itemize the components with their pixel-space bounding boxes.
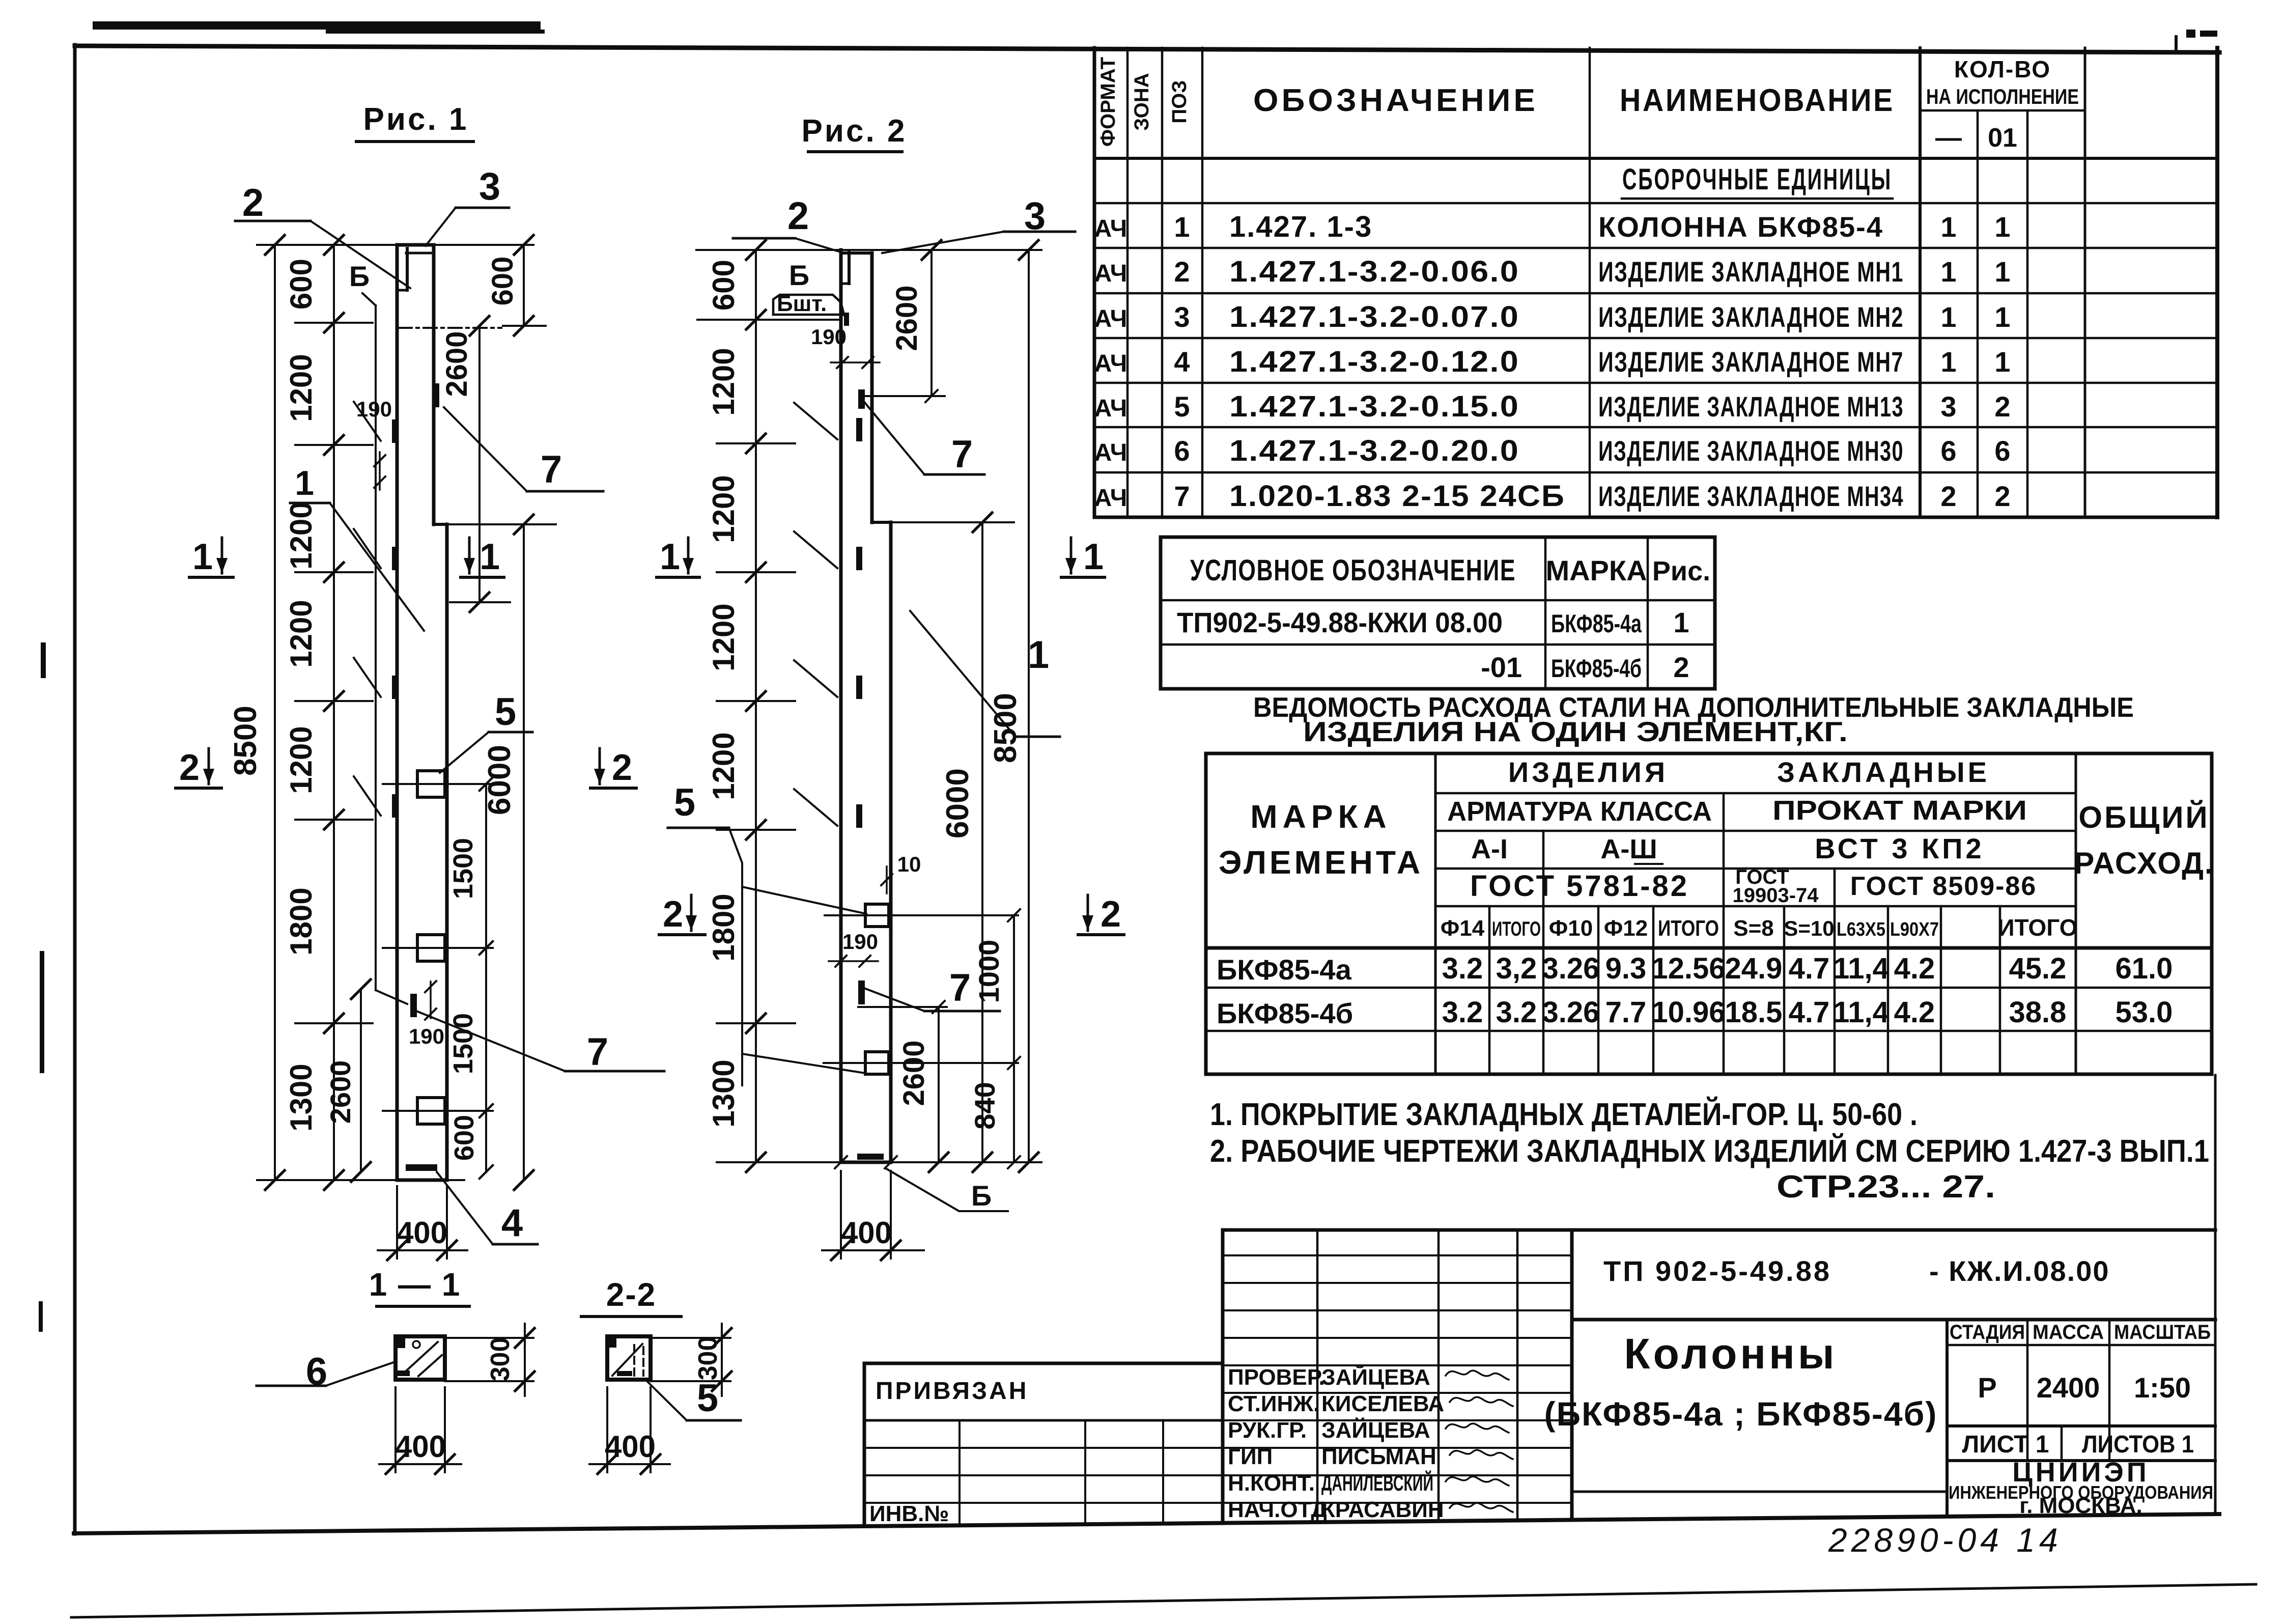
svg-text:1: 1 [660, 537, 680, 577]
svg-text:L90X7: L90X7 [1890, 919, 1939, 940]
svg-text:Ф12: Ф12 [1604, 916, 1648, 941]
svg-text:ЗАЙЦЕВА: ЗАЙЦЕВА [1321, 1417, 1430, 1443]
svg-text:8500: 8500 [228, 706, 263, 776]
svg-text:1200: 1200 [284, 501, 318, 569]
svg-text:Б: Б [789, 259, 809, 291]
svg-text:1.427.1-3.2-0.06.0: 1.427.1-3.2-0.06.0 [1229, 255, 1519, 288]
svg-text:АРМАТУРА КЛАССА: АРМАТУРА КЛАССА [1447, 796, 1712, 827]
svg-text:Н.КОНТ.: Н.КОНТ. [1228, 1471, 1315, 1496]
svg-text:НАИМЕНОВАНИЕ: НАИМЕНОВАНИЕ [1620, 83, 1895, 118]
svg-text:1: 1 [480, 537, 500, 577]
svg-text:300: 300 [486, 1337, 515, 1382]
svg-text:ИЗДЕЛИЕ ЗАКЛАДНОЕ МН30: ИЗДЕЛИЕ ЗАКЛАДНОЕ МН30 [1598, 435, 1904, 467]
svg-text:Колонны: Колонны [1624, 1330, 1837, 1378]
svg-text:3: 3 [479, 165, 500, 208]
svg-text:7: 7 [541, 448, 562, 491]
svg-text:ЗОНА: ЗОНА [1131, 73, 1153, 130]
svg-text:1: 1 [1994, 301, 2010, 333]
svg-text:1 — 1: 1 — 1 [369, 1266, 461, 1303]
svg-text:г. МОСКВА.: г. МОСКВА. [2019, 1493, 2142, 1518]
svg-text:4.2: 4.2 [1894, 996, 1935, 1029]
svg-text:4: 4 [1174, 346, 1190, 378]
svg-text:6000: 6000 [940, 768, 975, 838]
svg-text:2-2: 2-2 [606, 1276, 657, 1313]
svg-text:190: 190 [842, 930, 878, 954]
svg-text:НА ИСПОЛНЕНИЕ: НА ИСПОЛНЕНИЕ [1926, 85, 2079, 108]
svg-text:400: 400 [605, 1430, 656, 1464]
svg-text:2: 2 [1994, 390, 2010, 423]
svg-text:1: 1 [1940, 346, 1956, 378]
svg-text:ГОСТ 8509-86: ГОСТ 8509-86 [1850, 872, 2037, 901]
svg-text:2: 2 [1101, 894, 1121, 935]
svg-text:1: 1 [295, 464, 314, 502]
svg-text:ГИП: ГИП [1228, 1444, 1273, 1469]
svg-text:45.2: 45.2 [2009, 952, 2067, 985]
svg-text:БКФ85-4б: БКФ85-4б [1551, 654, 1642, 683]
svg-text:22890-04 14: 22890-04 14 [1828, 1521, 2062, 1559]
svg-text:АЧ: АЧ [1094, 260, 1127, 287]
svg-text:ИЗДЕЛИЯ НА ОДИН ЭЛЕМЕНТ,: ИЗДЕЛИЯ НА ОДИН ЭЛЕМЕНТ,КГ. [1303, 716, 1848, 747]
svg-text:11,4: 11,4 [1833, 952, 1889, 985]
svg-text:6: 6 [1994, 435, 2010, 467]
svg-text:400: 400 [841, 1216, 892, 1250]
svg-text:4.2: 4.2 [1894, 952, 1935, 985]
svg-text:КОЛ-ВО: КОЛ-ВО [1954, 56, 2051, 82]
svg-text:СТАДИЯ: СТАДИЯ [1950, 1321, 2025, 1343]
svg-text:7.7: 7.7 [1605, 996, 1647, 1029]
svg-text:1.427.1-3.2-0.20.0: 1.427.1-3.2-0.20.0 [1229, 434, 1519, 467]
svg-text:400: 400 [397, 1216, 447, 1250]
svg-text:ИНВ.№: ИНВ.№ [869, 1501, 949, 1526]
svg-text:КОЛОННА БКФ85-4: КОЛОННА БКФ85-4 [1598, 211, 1883, 243]
svg-text:9.3: 9.3 [1605, 952, 1647, 985]
svg-text:4: 4 [501, 1201, 523, 1245]
svg-text:3.26: 3.26 [1542, 996, 1600, 1029]
svg-text:КИСЕЛЕВА: КИСЕЛЕВА [1321, 1391, 1444, 1416]
svg-text:53.0: 53.0 [2116, 996, 2173, 1029]
svg-text:1: 1 [1940, 301, 1956, 333]
svg-text:ЗАЙЦЕВА: ЗАЙЦЕВА [1321, 1364, 1430, 1390]
svg-text:1500: 1500 [448, 1013, 478, 1074]
svg-text:600: 600 [707, 260, 741, 311]
svg-text:01: 01 [1988, 123, 2017, 153]
svg-text:3,2: 3,2 [1496, 952, 1537, 985]
svg-text:1: 1 [1673, 606, 1689, 638]
svg-text:11,4: 11,4 [1833, 996, 1889, 1029]
svg-text:ОБОЗНАЧЕНИЕ: ОБОЗНАЧЕНИЕ [1253, 83, 1538, 118]
svg-text:1200: 1200 [284, 600, 318, 667]
svg-text:ИТОГО: ИТОГО [1492, 918, 1541, 940]
svg-text:840: 840 [969, 1082, 1001, 1129]
svg-text:2: 2 [1940, 480, 1956, 512]
svg-text:1200: 1200 [707, 475, 741, 543]
svg-text:А-Ι: А-Ι [1471, 834, 1508, 864]
svg-text:(БКФ85-4а ; БКФ85-4б): (БКФ85-4а ; БКФ85-4б) [1544, 1395, 1938, 1433]
svg-text:1: 1 [1028, 633, 1049, 677]
svg-text:6000: 6000 [482, 745, 517, 815]
svg-text:ПРИВЯЗАН: ПРИВЯЗАН [876, 1378, 1028, 1405]
svg-text:ГОСТ 5781-82: ГОСТ 5781-82 [1470, 870, 1689, 903]
svg-text:АЧ: АЧ [1094, 395, 1127, 422]
svg-text:1000: 1000 [973, 940, 1005, 1003]
svg-text:600: 600 [284, 259, 318, 310]
svg-text:5: 5 [674, 781, 695, 824]
svg-text:ВСТ 3 КП2: ВСТ 3 КП2 [1815, 832, 1984, 864]
svg-text:БКФ85-4б: БКФ85-4б [1217, 997, 1353, 1029]
svg-text:ИЗДЕЛИЕ ЗАКЛАДНОЕ МН13: ИЗДЕЛИЕ ЗАКЛАДНОЕ МН13 [1598, 390, 1904, 423]
svg-text:1200: 1200 [284, 726, 318, 794]
svg-text:38.8: 38.8 [2009, 996, 2067, 1029]
svg-text:2: 2 [663, 894, 683, 935]
svg-text:61.0: 61.0 [2116, 952, 2173, 985]
svg-text:А-Ш: А-Ш [1600, 834, 1657, 864]
svg-text:ЭЛЕМЕНТА: ЭЛЕМЕНТА [1219, 844, 1423, 881]
svg-text:2. РАБОЧИЕ ЧЕРТЕЖИ ЗАКЛАДНЫХ: 2. РАБОЧИЕ ЧЕРТЕЖИ ЗАКЛАДНЫХ ИЗДЕЛИЙ СМ … [1210, 1133, 2209, 1169]
svg-text:4.7: 4.7 [1789, 952, 1830, 985]
svg-text:1500: 1500 [448, 838, 478, 899]
svg-text:1:50: 1:50 [2134, 1371, 2191, 1404]
svg-text:4.7: 4.7 [1789, 996, 1830, 1029]
svg-text:СТР.23... 27.: СТР.23... 27. [1777, 1169, 1995, 1205]
svg-text:СБОРОЧНЫЕ ЕДИНИЦЫ: СБОРОЧНЫЕ ЕДИНИЦЫ [1622, 163, 1892, 196]
svg-text:3.2: 3.2 [1496, 996, 1537, 1029]
svg-text:ИЗДЕЛИЕ ЗАКЛАДНОЕ МН2: ИЗДЕЛИЕ ЗАКЛАДНОЕ МН2 [1598, 301, 1904, 333]
svg-text:АЧ: АЧ [1094, 485, 1127, 512]
svg-text:НАЧ.ОТД: НАЧ.ОТД [1228, 1497, 1327, 1522]
svg-text:600: 600 [486, 257, 519, 306]
svg-text:2: 2 [1174, 256, 1190, 288]
svg-text:ПОЗ: ПОЗ [1168, 80, 1191, 124]
svg-text:Рис.: Рис. [1652, 556, 1710, 586]
svg-text:2600: 2600 [440, 331, 473, 397]
svg-text:2600: 2600 [897, 1040, 930, 1106]
svg-text:ТП 902-5-49.88: ТП 902-5-49.88 [1603, 1255, 1831, 1287]
svg-text:РУК.ГР.: РУК.ГР. [1228, 1418, 1307, 1443]
svg-text:ПРОКАТ МАРКИ: ПРОКАТ МАРКИ [1772, 795, 2027, 826]
svg-text:8500: 8500 [988, 693, 1023, 763]
svg-text:Б: Б [349, 260, 370, 292]
svg-text:- КЖ.И.08.00: - КЖ.И.08.00 [1929, 1255, 2110, 1287]
svg-text:ЗАКЛАДНЫЕ: ЗАКЛАДНЫЕ [1777, 756, 1990, 788]
svg-text:18.5: 18.5 [1725, 996, 1783, 1029]
svg-text:Ф10: Ф10 [1549, 916, 1593, 941]
svg-text:1.427.1-3.2-0.07.0: 1.427.1-3.2-0.07.0 [1229, 300, 1519, 333]
svg-text:2600: 2600 [324, 1060, 356, 1124]
svg-text:МАСШТАБ: МАСШТАБ [2114, 1321, 2211, 1343]
svg-text:5: 5 [1174, 390, 1190, 423]
svg-text:МАРКА: МАРКА [1545, 554, 1647, 586]
svg-text:1: 1 [1994, 346, 2010, 378]
svg-text:24.9: 24.9 [1725, 952, 1783, 985]
svg-text:ПРОВЕР.: ПРОВЕР. [1228, 1365, 1325, 1390]
svg-text:1: 1 [1174, 211, 1190, 243]
svg-text:ПИСЬМАН: ПИСЬМАН [1321, 1444, 1436, 1469]
svg-text:Ф14: Ф14 [1441, 916, 1485, 941]
svg-text:ЛИСТ 1: ЛИСТ 1 [1962, 1431, 2049, 1458]
svg-text:7: 7 [1174, 480, 1190, 512]
svg-text:S=8: S=8 [1733, 916, 1774, 941]
svg-text:1200: 1200 [707, 603, 741, 671]
svg-text:10: 10 [897, 852, 921, 876]
svg-text:S=10: S=10 [1784, 916, 1834, 940]
svg-text:5: 5 [495, 690, 516, 734]
svg-text:400: 400 [395, 1430, 446, 1464]
svg-text:Рис. 1: Рис. 1 [363, 102, 469, 137]
svg-text:6: 6 [1940, 435, 1956, 467]
svg-text:1: 1 [1940, 256, 1956, 288]
svg-text:1.427.1-3.2-0.15.0: 1.427.1-3.2-0.15.0 [1229, 390, 1519, 423]
svg-text:ИЗДЕЛИЕ ЗАКЛАДНОЕ МН7: ИЗДЕЛИЕ ЗАКЛАДНОЕ МН7 [1598, 346, 1904, 378]
svg-text:190: 190 [409, 1024, 444, 1048]
svg-text:Р: Р [1978, 1371, 1996, 1404]
svg-text:1.427.1-3.2-0.12.0: 1.427.1-3.2-0.12.0 [1229, 345, 1519, 378]
svg-text:БКФ85-4а: БКФ85-4а [1551, 609, 1642, 638]
svg-text:1: 1 [1083, 537, 1104, 577]
svg-text:1200: 1200 [707, 732, 741, 800]
svg-text:ИЗДЕЛИЕ ЗАКЛАДНОЕ МН1: ИЗДЕЛИЕ ЗАКЛАДНОЕ МН1 [1598, 256, 1904, 288]
svg-text:КРАСАВИН: КРАСАВИН [1321, 1497, 1444, 1522]
svg-text:АЧ: АЧ [1094, 350, 1127, 377]
svg-text:10.96: 10.96 [1651, 996, 1725, 1029]
svg-text:2: 2 [787, 194, 809, 238]
svg-text:3.2: 3.2 [1442, 996, 1483, 1029]
svg-text:7: 7 [951, 433, 973, 476]
svg-text:190: 190 [811, 325, 847, 349]
svg-text:1200: 1200 [707, 348, 741, 415]
svg-text:ИЗДЕЛИЯ: ИЗДЕЛИЯ [1508, 756, 1668, 788]
svg-text:1: 1 [1994, 256, 2010, 288]
svg-text:190: 190 [356, 397, 392, 421]
svg-text:-01: -01 [1481, 651, 1522, 683]
svg-text:ФОРМАТ: ФОРМАТ [1097, 57, 1119, 147]
svg-text:3.26: 3.26 [1542, 952, 1600, 985]
svg-text:2: 2 [1994, 480, 2010, 512]
svg-text:1. ПОКРЫТИЕ ЗАКЛАДНЫХ ДЕТАЛЕ: 1. ПОКРЫТИЕ ЗАКЛАДНЫХ ДЕТАЛЕЙ-ГОР. Ц. 50… [1210, 1097, 1918, 1132]
svg-text:1: 1 [1940, 211, 1956, 243]
svg-text:3.2: 3.2 [1442, 952, 1483, 985]
svg-text:ИТОГО: ИТОГО [1997, 914, 2077, 941]
svg-text:2: 2 [612, 747, 632, 788]
svg-text:1200: 1200 [284, 354, 318, 422]
svg-text:1: 1 [1994, 211, 2010, 243]
svg-text:1300: 1300 [284, 1063, 318, 1131]
svg-text:2: 2 [1673, 651, 1689, 683]
svg-text:СТ.ИНЖ.: СТ.ИНЖ. [1228, 1391, 1319, 1416]
svg-text:ЛИСТОВ 1: ЛИСТОВ 1 [2082, 1431, 2194, 1458]
svg-text:600: 600 [449, 1115, 480, 1161]
svg-text:1.020-1.83 2-15 24СБ: 1.020-1.83 2-15 24СБ [1229, 480, 1565, 513]
svg-text:6: 6 [1174, 435, 1190, 467]
svg-text:3: 3 [1174, 301, 1190, 333]
svg-text:2600: 2600 [890, 285, 923, 351]
svg-text:УСЛОВНОЕ ОБОЗНАЧЕНИЕ: УСЛОВНОЕ ОБОЗНАЧЕНИЕ [1190, 554, 1516, 587]
svg-text:2400: 2400 [2037, 1371, 2100, 1404]
svg-text:РАСХОД.: РАСХОД. [2074, 846, 2214, 880]
svg-text:19903-74: 19903-74 [1732, 884, 1819, 907]
svg-text:АЧ: АЧ [1094, 305, 1127, 332]
svg-text:300: 300 [693, 1336, 723, 1381]
svg-text:МАССА: МАССА [2033, 1321, 2104, 1343]
svg-text:Рис. 2: Рис. 2 [802, 114, 907, 149]
svg-text:12.56: 12.56 [1651, 952, 1725, 985]
svg-text:7: 7 [949, 966, 971, 1010]
svg-text:7: 7 [587, 1030, 608, 1074]
svg-text:1300: 1300 [707, 1059, 741, 1127]
svg-text:2: 2 [179, 747, 200, 788]
svg-text:Б: Б [971, 1180, 992, 1212]
svg-text:3: 3 [1940, 390, 1956, 423]
svg-text:1: 1 [192, 537, 213, 577]
svg-text:1800: 1800 [707, 893, 741, 961]
svg-text:МАРКА: МАРКА [1250, 798, 1392, 835]
svg-text:ТП902-5-49.88-КЖИ 08.00: ТП902-5-49.88-КЖИ 08.00 [1177, 606, 1503, 638]
svg-text:5: 5 [697, 1377, 718, 1420]
svg-text:АЧ: АЧ [1094, 215, 1127, 242]
svg-text:ДАНИЛЕВСКИЙ: ДАНИЛЕВСКИЙ [1321, 1470, 1433, 1496]
svg-text:1800: 1800 [284, 887, 318, 955]
svg-text:—: — [1935, 123, 1962, 153]
svg-text:ИТОГО: ИТОГО [1658, 916, 1719, 941]
svg-text:АЧ: АЧ [1094, 439, 1127, 466]
svg-text:ИЗДЕЛИЕ ЗАКЛАДНОЕ МН34: ИЗДЕЛИЕ ЗАКЛАДНОЕ МН34 [1598, 480, 1904, 512]
svg-text:1.427. 1-3: 1.427. 1-3 [1229, 210, 1372, 243]
svg-text:БКФ85-4а: БКФ85-4а [1217, 954, 1352, 986]
svg-text:L63X5: L63X5 [1837, 919, 1885, 940]
svg-text:2: 2 [242, 181, 264, 225]
svg-text:ОБЩИЙ: ОБЩИЙ [2078, 800, 2209, 834]
